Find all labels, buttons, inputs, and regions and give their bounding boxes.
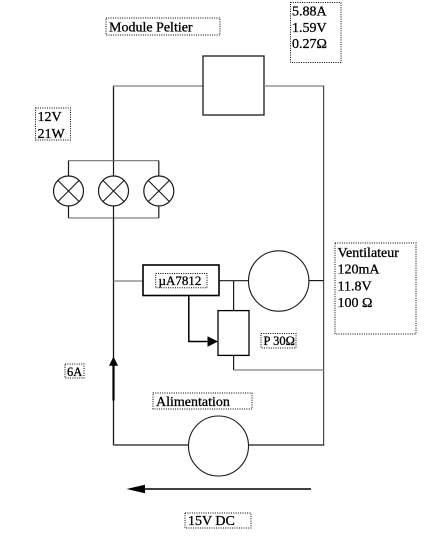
- label Ventilateur 120mA 11.8V 100ohm: [335, 243, 416, 334]
- wire fan to right rail: [309, 280, 324, 282]
- svg-text:Alimentation: Alimentation: [156, 395, 230, 410]
- svg-text:Ventilateur: Ventilateur: [338, 246, 400, 261]
- potentiometer P box: [218, 311, 249, 356]
- wire left vertical lower segment: [113, 218, 115, 445]
- lamp bank top rail: [69, 160, 159, 162]
- wire potentiometer bottom lead: [233, 355, 235, 370]
- regulator U1 uA7812 box: [143, 265, 219, 296]
- svg-text:µA7812: µA7812: [159, 273, 202, 288]
- fan motor M1 circle: [249, 251, 309, 311]
- label P 30ohm: [261, 334, 296, 349]
- lamp L3: [144, 176, 174, 206]
- svg-text:6A: 6A: [67, 365, 82, 379]
- current flow arrow 15V DC (left): [127, 485, 312, 494]
- svg-text:15V DC: 15V DC: [188, 514, 235, 529]
- svg-text:5.88A: 5.88A: [292, 5, 328, 20]
- wire right vertical rail: [323, 86, 325, 445]
- svg-text:P 30Ω: P 30Ω: [264, 334, 295, 348]
- module Peltier box: [203, 56, 264, 115]
- wire top horizontal left (to Peltier): [113, 85, 203, 87]
- wire junction drop to potentiometer: [233, 281, 235, 311]
- lamp L2: [99, 176, 129, 206]
- svg-text:21W: 21W: [38, 127, 66, 142]
- current direction arrow 6A (up): [109, 357, 118, 401]
- wire regulator input: [114, 280, 144, 282]
- label Module Peltier: [106, 18, 220, 36]
- wire regulator output to fan: [219, 280, 249, 282]
- svg-text:11.8V: 11.8V: [338, 279, 372, 294]
- wire left vertical top segment: [113, 86, 115, 161]
- label 15V DC: [185, 513, 251, 529]
- svg-text:100 Ω: 100 Ω: [338, 296, 373, 311]
- svg-text:1.59V: 1.59V: [292, 21, 327, 36]
- svg-text:Module Peltier: Module Peltier: [109, 21, 193, 36]
- wiper arrow from regulator to potentiometer: [189, 296, 218, 347]
- lamp bank middle stubs: [113, 161, 115, 176]
- label Alimentation: [153, 393, 252, 410]
- label uA7812: [156, 273, 207, 288]
- power supply source circle: [189, 416, 249, 476]
- label Peltier measurements 5.88A 1.59V 0.27ohm: [291, 3, 342, 63]
- wire potentiometer bottom horizontal to right rail: [234, 369, 324, 371]
- lamp bank right stubs: [158, 161, 160, 176]
- lamp bank left stubs: [68, 161, 70, 176]
- label 12V 21W: [36, 108, 71, 142]
- svg-text:120mA: 120mA: [338, 263, 381, 278]
- lamp bank bottom rail: [69, 217, 159, 219]
- svg-text:0.27Ω: 0.27Ω: [292, 37, 327, 52]
- svg-text:12V: 12V: [38, 110, 62, 125]
- wire bottom horizontal right: [249, 444, 324, 446]
- label 6A: [65, 364, 84, 379]
- wire bottom horizontal left: [114, 444, 189, 446]
- wire top horizontal right (Peltier to right rail): [264, 85, 324, 87]
- lamp L1: [54, 176, 84, 206]
